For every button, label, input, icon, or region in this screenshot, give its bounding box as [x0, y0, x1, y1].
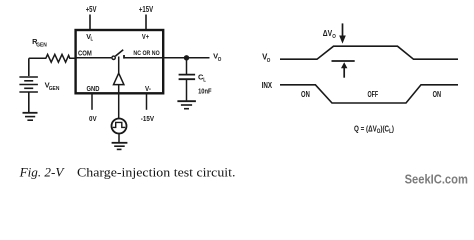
reference bar — [332, 60, 355, 62]
wire triangle to pulse source — [118, 85, 120, 119]
VO waveform trace — [280, 46, 458, 59]
svg-text:INX: INX — [262, 81, 273, 90]
svg-text:Fig. 2-V: Fig. 2-V — [19, 165, 65, 179]
svg-text:GEN: GEN — [36, 42, 47, 48]
svg-text:ΔV: ΔV — [323, 29, 333, 38]
svg-text:O: O — [267, 58, 271, 64]
IC box U1 — [76, 30, 164, 93]
capacitor CL — [179, 58, 196, 101]
wire COM input — [75, 57, 111, 59]
svg-text:ON: ON — [433, 90, 442, 99]
wire NC/NO output — [124, 57, 210, 59]
resistor RGEN — [29, 54, 75, 62]
svg-text:L: L — [91, 37, 94, 43]
switch S1 — [112, 50, 124, 60]
svg-text:GND: GND — [87, 84, 100, 93]
wire +5V to VL pin — [89, 15, 91, 31]
svg-text:COM: COM — [78, 50, 92, 57]
wire V- pin down — [146, 94, 148, 110]
svg-text:O: O — [332, 34, 336, 40]
svg-text:ON: ON — [301, 90, 310, 99]
svg-text:L: L — [203, 78, 206, 84]
ground (CL) — [177, 101, 196, 109]
svg-text:+15V: +15V — [139, 5, 154, 14]
svg-text:Charge-injection test circuit.: Charge-injection test circuit. — [77, 165, 236, 179]
svg-text:V+: V+ — [142, 33, 149, 41]
battery VGEN — [19, 58, 38, 112]
down arrow — [339, 23, 346, 43]
wire +15V to V+ pin — [145, 15, 147, 31]
svg-text:NC OR NO: NC OR NO — [133, 50, 159, 57]
svg-text:SeekIC.com: SeekIC.com — [405, 171, 468, 186]
pulse generator source — [112, 119, 127, 143]
svg-text:-15V: -15V — [141, 114, 154, 123]
svg-text:OFF: OFF — [368, 90, 379, 99]
svg-text:Q = (ΔVO)(CL): Q = (ΔVO)(CL) — [354, 124, 394, 135]
switch actuator wire — [118, 57, 120, 74]
junction node output — [184, 55, 189, 60]
wire GND pin down — [91, 94, 93, 110]
svg-text:V-: V- — [145, 84, 151, 93]
svg-text:O: O — [218, 57, 222, 63]
svg-text:+5V: +5V — [86, 5, 97, 14]
svg-text:10nF: 10nF — [198, 86, 212, 95]
INX waveform trace — [280, 85, 458, 103]
ground (pulse gen) — [112, 143, 128, 150]
svg-text:GEN: GEN — [49, 86, 60, 92]
driver triangle — [114, 73, 124, 84]
ground (VGEN) — [23, 113, 38, 120]
svg-text:0V: 0V — [89, 114, 97, 123]
up arrow — [341, 62, 347, 77]
